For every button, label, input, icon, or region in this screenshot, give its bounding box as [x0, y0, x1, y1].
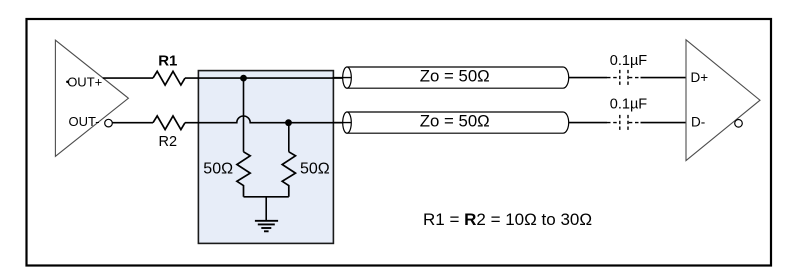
svg-text:OUT+: OUT+	[67, 74, 102, 89]
resistor R4 50 ohm (right vertical)	[282, 152, 295, 197]
driver U1 (left triangle)	[55, 40, 128, 156]
resistor R1	[153, 71, 185, 85]
wire coax 1 to C1	[569, 77, 608, 79]
branch wire node B down to R4	[288, 123, 290, 152]
wire OUT- to R2	[112, 122, 153, 124]
wire R2 to coax 2 (hop over branch of node A)	[185, 116, 347, 123]
wire R1 to coax 1	[185, 77, 347, 79]
wire stub through coax 2 left end	[333, 122, 352, 124]
coax cable 1 left end ellipse	[343, 67, 352, 88]
svg-text:D-: D-	[691, 115, 705, 130]
coax cable 2 left end ellipse	[343, 112, 352, 133]
svg-text:Zo = 50Ω: Zo = 50Ω	[420, 111, 490, 130]
svg-text:R2: R2	[159, 134, 178, 150]
resistor R2	[153, 116, 185, 130]
junction node A	[240, 75, 247, 82]
ground symbol	[255, 221, 278, 232]
svg-text:0.1µF: 0.1µF	[610, 53, 648, 69]
branch wire node A down to R3	[243, 78, 245, 152]
termination network shaded box	[198, 71, 333, 244]
inversion bubble OUT-	[105, 119, 113, 127]
svg-text:D+: D+	[691, 70, 709, 85]
wire C2 to D-	[641, 122, 687, 124]
pin label OUT+	[66, 74, 102, 89]
receiver U2 (right triangle)	[686, 40, 760, 161]
wire OUT+ to R1	[103, 77, 153, 79]
wire coax 2 to C2	[569, 122, 608, 124]
capacitor C1 (dashed, optional)	[607, 70, 641, 86]
coax cable 2 body	[347, 112, 569, 133]
wire stub through coax 1 left end	[333, 77, 352, 79]
svg-text:50Ω: 50Ω	[203, 161, 233, 178]
svg-text:50Ω: 50Ω	[300, 161, 330, 178]
svg-text:R1 = R2 = 10Ω to 30Ω: R1 = R2 = 10Ω to 30Ω	[423, 210, 592, 229]
svg-text:0.1µF: 0.1µF	[610, 97, 648, 113]
junction node B	[285, 119, 292, 126]
bus wire joining resistor bottoms	[244, 196, 289, 198]
inversion bubble D-	[735, 120, 743, 128]
svg-text:OUT-: OUT-	[69, 114, 100, 129]
ground stem wire	[265, 197, 267, 221]
capacitor C2 (dashed, optional)	[607, 115, 641, 131]
wire C1 to D+	[641, 77, 687, 79]
svg-text:R1: R1	[158, 52, 177, 69]
coax cable 1 body	[347, 67, 569, 88]
resistor R3 50 ohm (left vertical)	[237, 152, 250, 197]
svg-text:Zo = 50Ω: Zo = 50Ω	[420, 66, 490, 85]
